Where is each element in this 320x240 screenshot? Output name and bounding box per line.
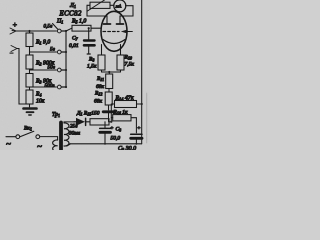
resistor R3: [26, 71, 33, 90]
meter mA: [114, 0, 126, 12]
ground: [24, 109, 37, 116]
wire B+ rail: [141, 0, 143, 144]
wire input to contact: [16, 30, 57, 32]
wire tap 50v: [30, 69, 57, 71]
resistor R15: [90, 119, 111, 125]
diode D1: [74, 118, 90, 126]
tube U1 envelope: [101, 11, 127, 51]
tube cathode arc: [103, 40, 125, 44]
node bus junction left: [104, 143, 106, 145]
terminal - input probe: [11, 46, 17, 52]
resistor R16: [111, 115, 136, 133]
wire bottom bus: [70, 143, 142, 145]
resistor R10: [117, 55, 124, 72]
wire tap 500v: [30, 86, 57, 88]
wire bus to R5: [66, 28, 72, 31]
wire minus lead down-left rail: [17, 49, 30, 105]
capacitor C9: [131, 134, 142, 143]
resistor R11: [106, 72, 113, 92]
node junction bar: [103, 110, 113, 113]
node rail junction: [141, 103, 143, 105]
transformer Tr1 core: [59, 123, 63, 151]
switch P1 arm: [53, 24, 58, 30]
resistor R12: [105, 92, 112, 110]
switch contact 500v: [57, 85, 61, 89]
node minus label: [10, 53, 14, 54]
wire bar to supply row: [109, 104, 112, 122]
wire meter to anode right: [120, 6, 133, 24]
node grid junction: [88, 27, 90, 29]
wire anode left to rheostat: [87, 5, 107, 16]
switch contact 0,5v: [57, 29, 61, 33]
switch contact 5v: [57, 50, 61, 54]
capacitor C8: [100, 122, 111, 144]
tube grid dashed: [103, 31, 119, 33]
wire cathode join: [102, 71, 121, 73]
tube cathode leads: [102, 45, 121, 56]
wire contact bus: [61, 30, 67, 88]
resistor R8: [98, 55, 105, 72]
resistor R2: [26, 52, 33, 71]
node cathode mid: [108, 71, 110, 73]
switch contact 50v: [57, 68, 61, 72]
wire page edge artifact: [146, 93, 148, 143]
resistor R14: [111, 101, 141, 108]
rheostat R6: [87, 0, 114, 11]
switch Vk1: [6, 131, 40, 138]
transformer Tr1 primary: [40, 137, 58, 152]
resistor R5: [72, 25, 101, 31]
terminal + input probe: [10, 28, 16, 34]
resistor R4: [26, 90, 33, 107]
node bus junction right: [135, 143, 137, 145]
transformer Tr1 secondary: [64, 122, 74, 146]
resistor R1: [26, 31, 33, 52]
tube anode right: [117, 16, 124, 24]
node supply junction: [110, 121, 112, 123]
tube grid arrow: [121, 30, 133, 34]
tube anode left: [104, 16, 111, 24]
capacitor C7: [84, 28, 95, 54]
wire tap 5v: [30, 51, 57, 53]
